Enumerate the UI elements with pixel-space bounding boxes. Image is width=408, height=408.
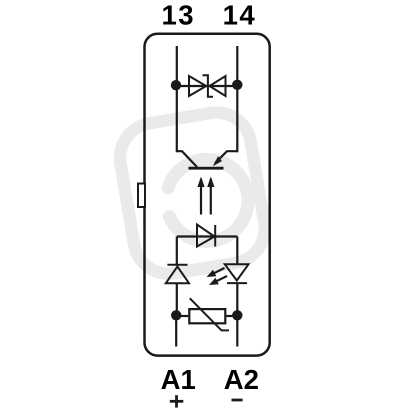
wire: A1 lead to case bottom: [175, 316, 177, 347]
wire: right branch to varistor node: [236, 283, 238, 316]
node dot A2 branch: [232, 310, 242, 320]
wire: terminal 14 vertical: [236, 46, 238, 152]
LED D3 (points down): [225, 264, 249, 283]
svg-text:A2: A2: [224, 364, 259, 395]
polarity plus: [170, 395, 184, 407]
LED emission arrow lower: [209, 276, 227, 285]
wire: TVS horizontal link: [177, 85, 238, 87]
wire: A2 lead to case bottom: [236, 316, 238, 347]
wire: left branch to varistor node: [176, 283, 178, 316]
svg-text:A1: A1: [161, 364, 196, 395]
node dot A1 branch: [171, 310, 181, 320]
phototransistor Q1: [177, 151, 238, 168]
node junction dot right: [232, 80, 242, 90]
polarity minus: [232, 399, 243, 402]
wire: terminal 13 vertical: [176, 46, 178, 152]
wire: lower loop top rail: [177, 235, 238, 237]
light coupling arrow right: [210, 179, 212, 215]
outer body outline: [145, 34, 270, 356]
TVS bidirectional suppressor diode: [189, 75, 226, 96]
svg-text:13: 13: [162, 0, 196, 31]
reverse polarity diode D2 (points up): [166, 265, 189, 283]
transistor arrow head: [213, 156, 222, 166]
watermark C glyph: [168, 159, 248, 241]
series protection diode D1: [197, 225, 215, 247]
wire: left branch down from rail: [176, 237, 178, 265]
varistor RV1: [181, 298, 233, 330]
light coupling arrow left: [200, 179, 202, 215]
svg-text:14: 14: [223, 0, 257, 31]
wire: right branch down from rail: [236, 237, 238, 265]
side tab: [138, 184, 145, 208]
node junction dot left: [171, 80, 181, 90]
watermark logo: [115, 107, 270, 279]
LED emission arrow upper: [207, 268, 225, 277]
